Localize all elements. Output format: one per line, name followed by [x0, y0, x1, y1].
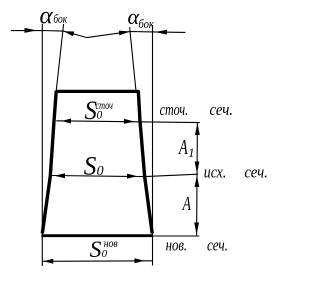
svg-text:сеч.: сеч.: [210, 100, 234, 119]
wire right side slant extension line: [130, 27, 136, 91]
trapezoid bottom side: [41, 234, 152, 237]
arrow A1 bottom pointing down: [195, 162, 200, 174]
svg-text:бок: бок: [53, 12, 67, 26]
wire angle dimension zigzag line: [11, 31, 186, 38]
arrow angle-dim left-inner pointing left: [64, 31, 75, 36]
arrow S0 left pointing left: [55, 173, 66, 178]
wire left side slant extension line: [56, 24, 63, 90]
arrow S0nov right pointing right: [135, 258, 145, 263]
arrow angle-dim left pointing right: [25, 28, 37, 33]
arrow angle-dim right-inner pointing right: [119, 31, 130, 36]
trapezoid left side: [42, 91, 56, 234]
svg-text:бок: бок: [138, 17, 154, 31]
svg-text:сточ.: сточ.: [160, 100, 189, 119]
arrow S0stoch left pointing left: [62, 119, 72, 124]
svg-text:исх.: исх.: [204, 163, 227, 182]
svg-text:A: A: [182, 192, 192, 214]
wire A1/A vertical dimension line: [196, 123, 199, 235]
svg-text:0: 0: [102, 248, 108, 260]
wire left vertical extension line: [41, 24, 43, 266]
arrow S0nov left pointing left: [43, 259, 53, 264]
svg-text:0: 0: [97, 110, 103, 122]
svg-text:α: α: [40, 2, 54, 29]
svg-text:S: S: [90, 237, 102, 263]
arrow angle-dim right pointing left: [155, 30, 167, 35]
svg-text:сеч.: сеч.: [207, 236, 228, 255]
wire iskh section level + S0 dimension line: [52, 174, 198, 176]
wire stoch section level + S0stoch dimension line: [56, 121, 200, 123]
trapezoid top side: [56, 90, 139, 93]
svg-text:A: A: [178, 135, 188, 158]
svg-text:1: 1: [188, 146, 194, 160]
arrow A1 top pointing up: [195, 123, 200, 135]
trapezoid right side: [138, 91, 152, 234]
wire S0nov dimension line: [42, 260, 152, 263]
arrow A top pointing up: [195, 176, 200, 188]
svg-text:0: 0: [97, 164, 104, 179]
arrow S0stoch right pointing right: [124, 119, 135, 124]
arrow S0 right pointing right: [127, 174, 138, 179]
svg-text:сеч.: сеч.: [244, 162, 268, 181]
wire right vertical extension line: [152, 25, 154, 266]
svg-text:S: S: [84, 151, 97, 180]
wire nov section level line: [153, 235, 199, 237]
svg-text:нов.: нов.: [166, 235, 188, 254]
arrow A bottom pointing down: [194, 223, 199, 235]
